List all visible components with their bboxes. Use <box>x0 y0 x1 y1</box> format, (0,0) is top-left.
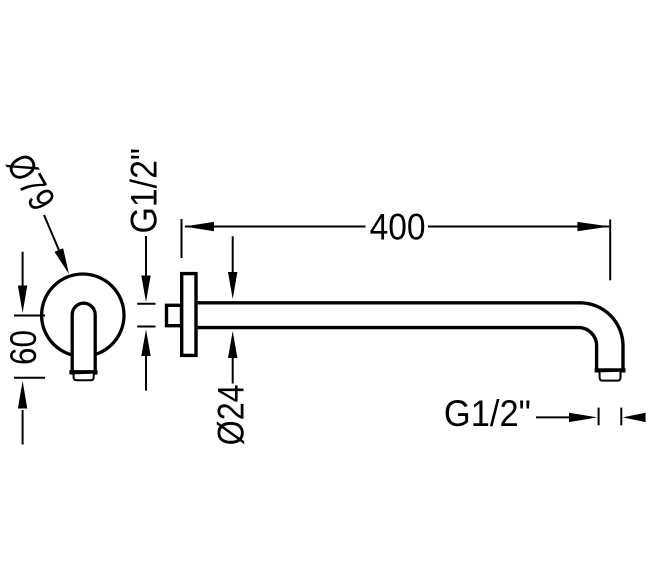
G1/2 top arrowhead <box>141 276 150 303</box>
G1/2 bottom left tick <box>598 408 600 426</box>
svg-text:G1/2": G1/2" <box>444 393 531 434</box>
dimension 400 left extension line <box>181 219 183 258</box>
dimension 400 right arrowhead <box>577 222 609 231</box>
dimension 400 right extension line <box>609 220 611 281</box>
dimension 400 line right segment <box>428 226 609 228</box>
arm front view bottom bar <box>69 370 97 374</box>
G1/2 bottom right arrowhead <box>569 413 597 422</box>
G1/2 lower arrow line <box>145 355 147 391</box>
dimension 60 lower arrowhead <box>18 381 27 409</box>
G1/2 connector square side view <box>167 305 182 325</box>
dimension 60 lower tick <box>14 377 45 379</box>
dimension Ø24 upper arrow line <box>232 236 234 274</box>
G1/2 lower tick <box>137 326 155 328</box>
G1/2 bottom left-pointing arrowhead <box>623 413 646 422</box>
dimension 400 line left segment <box>185 226 366 228</box>
svg-text:Ø24: Ø24 <box>210 384 251 445</box>
G1/2 lower arrowhead <box>141 330 150 357</box>
flange side view <box>182 274 196 356</box>
G1/2 upper tick <box>137 303 155 305</box>
arm front view capsule <box>72 303 95 373</box>
Ø79 leader arrowhead <box>55 248 70 274</box>
arm nozzle tip side view <box>600 372 621 381</box>
svg-text:G1/2": G1/2" <box>124 148 165 234</box>
dimension Ø24 upper arrowhead <box>228 272 237 299</box>
svg-text:60: 60 <box>3 330 44 365</box>
dimension 60 upper arrow line <box>22 252 24 287</box>
dimension Ø24 lower arrowhead <box>228 331 237 358</box>
svg-text:400: 400 <box>370 206 426 247</box>
dimension 60 lower arrow line <box>22 410 24 445</box>
arm tube inner edge <box>198 328 597 370</box>
arm front view nozzle tip <box>74 374 94 381</box>
arm tube outer edge <box>198 303 623 370</box>
dimension 400 left arrowhead <box>184 222 214 231</box>
G1/2 top arrow line <box>145 236 147 278</box>
Ø79 leader line <box>44 215 59 250</box>
G1/2 bottom arrow line <box>536 416 570 418</box>
dimension 60 upper tick <box>14 315 45 317</box>
dimension 60 upper arrowhead <box>18 286 27 314</box>
dimension Ø24 lower arrow line <box>232 357 234 384</box>
arm tube end bar <box>595 368 626 372</box>
G1/2 bottom right tick <box>620 408 622 426</box>
flange front view circle (Ø79) <box>42 274 124 356</box>
